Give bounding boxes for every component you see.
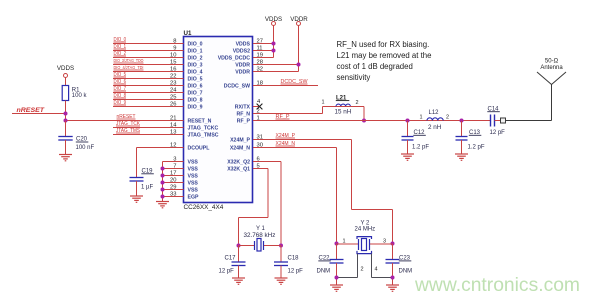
junction Y1 left	[237, 244, 241, 248]
inductor L12	[427, 118, 443, 121]
svg-text:1 µF: 1 µF	[141, 185, 153, 191]
svg-text:L21 may be removed at the: L21 may be removed at the	[337, 51, 432, 60]
wire net X32K_Q2 pin 6	[253, 161, 281, 163]
svg-text:DIO_9: DIO_9	[188, 105, 203, 111]
wire pin 28 VDDR	[253, 64, 299, 66]
svg-text:X32K_Q1: X32K_Q1	[227, 167, 250, 173]
svg-text:13: 13	[170, 130, 176, 136]
svg-text:DIO_3: DIO_3	[188, 63, 203, 69]
svg-text:RF_N used for RX biasing.: RF_N used for RX biasing.	[337, 40, 430, 49]
ground C13	[455, 154, 468, 160]
wire net RF_N pin 2	[253, 113, 323, 115]
wire VDDS rail	[273, 26, 275, 58]
svg-text:15: 15	[170, 60, 176, 66]
wire node to C20	[65, 121, 67, 137]
junction RF/C13	[460, 119, 464, 123]
svg-text:DIO_6: DIO_6	[188, 84, 203, 90]
svg-text:29: 29	[170, 185, 176, 191]
svg-text:DIO_4: DIO_4	[188, 70, 203, 76]
wire C12 stem	[407, 121, 409, 137]
wire VSS pin 7 stub	[163, 168, 184, 170]
svg-text:DNM: DNM	[399, 269, 413, 275]
wire net RF_P main line	[253, 120, 491, 122]
ground C17	[232, 278, 245, 284]
svg-text:100 k: 100 k	[72, 93, 88, 99]
svg-text:33: 33	[170, 192, 176, 198]
wire pin 12 DCOUPL to C19	[137, 147, 184, 149]
capacitor C13	[456, 137, 468, 141]
svg-text:50-Ω: 50-Ω	[545, 59, 559, 65]
svg-text:VDDS: VDDS	[57, 65, 74, 72]
svg-text:VSS: VSS	[188, 167, 199, 173]
wire VSS pin 33 stub	[163, 196, 184, 198]
wire net DIO_5 to pin 22	[113, 78, 184, 80]
wire net X24M_P pin 31	[253, 139, 352, 141]
ground C20	[59, 155, 72, 161]
wire net X32K_Q1 pin 5	[253, 168, 268, 170]
junction VDDR pin 28	[297, 63, 301, 67]
svg-text:2: 2	[446, 114, 449, 120]
svg-text:23: 23	[170, 81, 176, 87]
svg-text:17: 17	[170, 171, 176, 177]
wire Y2 pin 4	[371, 254, 373, 278]
capacitor C12	[402, 137, 414, 141]
svg-text:14: 14	[170, 123, 177, 129]
svg-text:CC26XX_4X4: CC26XX_4X4	[184, 204, 224, 211]
svg-text:24: 24	[170, 88, 177, 94]
svg-text:DCDC_SW: DCDC_SW	[224, 84, 250, 90]
wire Y1 left node	[239, 245, 255, 247]
junction Y2 left	[335, 242, 339, 246]
svg-text:RF_N: RF_N	[236, 112, 250, 118]
svg-text:VDDR: VDDR	[235, 63, 250, 69]
junction VSS bus	[161, 174, 165, 178]
capacitor C17	[232, 262, 246, 266]
wire pin 27 VDDS	[253, 43, 274, 45]
svg-text:VDDR: VDDR	[235, 70, 250, 76]
antenna 50-ohm	[537, 72, 566, 121]
svg-text:cost of 1 dB degraded: cost of 1 dB degraded	[337, 62, 413, 71]
capacitor C18	[274, 262, 288, 266]
svg-text:4: 4	[375, 267, 378, 273]
svg-text:1.2 pF: 1.2 pF	[412, 145, 429, 151]
svg-text:X24M_N: X24M_N	[230, 146, 250, 152]
ground C19	[130, 196, 143, 202]
wire C17 stem	[238, 246, 240, 263]
wire X32K_Q1 jog	[267, 169, 269, 218]
svg-text:RX/TX: RX/TX	[235, 105, 251, 111]
capacitor C23	[386, 260, 400, 264]
svg-text:DIO_2: DIO_2	[188, 56, 203, 62]
junction L21/RF_P	[362, 119, 366, 123]
svg-text:1.2 pF: 1.2 pF	[468, 145, 485, 151]
svg-text:DIO_8: DIO_8	[188, 98, 203, 104]
wire C13 stem	[461, 121, 463, 137]
svg-text:C18: C18	[288, 255, 300, 261]
junction VDDS pin 27	[272, 42, 276, 46]
wire C18 stem	[280, 246, 282, 263]
junction VSS bus	[161, 181, 165, 185]
wire net DIO_9 to pin 26	[113, 106, 184, 108]
svg-text:Y 1: Y 1	[256, 226, 266, 232]
wire VSS pin 29 stub	[163, 189, 184, 191]
svg-text:3: 3	[383, 238, 386, 244]
wire net nRESET to pin 21	[66, 120, 184, 122]
ground C18	[275, 278, 288, 284]
svg-text:VSS: VSS	[188, 188, 199, 194]
wire net DIO_2 to pin 10	[113, 57, 184, 59]
wire net DIO_6 to pin 23	[113, 85, 184, 87]
svg-text:2: 2	[356, 100, 359, 106]
ground VSS bus	[156, 202, 169, 208]
svg-text:8: 8	[173, 39, 176, 45]
svg-text:X24M_P: X24M_P	[230, 138, 250, 144]
svg-text:sensitivity: sensitivity	[337, 73, 371, 82]
wire VSS pin 20 stub	[163, 182, 184, 184]
capacitor C22	[330, 260, 344, 264]
svg-text:JTAG_TMSC: JTAG_TMSC	[188, 133, 219, 139]
svg-text:L12: L12	[429, 110, 440, 116]
svg-text:2: 2	[361, 267, 364, 273]
capacitor C20	[58, 137, 72, 141]
wire X32K_Q2 vertical	[280, 162, 282, 246]
no-connect X pin 4	[257, 104, 263, 110]
wire net DIO_3/JTAG_TDO to pin 15	[113, 64, 184, 66]
svg-text:www.cntronics.com: www.cntronics.com	[414, 274, 580, 296]
wire C18 ground	[280, 266, 282, 279]
svg-text:12: 12	[170, 143, 176, 149]
port terminal	[501, 118, 506, 123]
svg-text:12 pF: 12 pF	[288, 268, 304, 274]
wire net JTAG_TCK to pin 14	[113, 127, 184, 129]
svg-text:22: 22	[170, 74, 176, 80]
ground C22	[330, 285, 343, 291]
wire net DIO_8 to pin 25	[113, 99, 184, 101]
svg-text:VSS: VSS	[188, 160, 199, 166]
wire VSS pin 3 stub	[163, 161, 184, 163]
ground C23	[386, 285, 399, 291]
wire net X24M_N pin 30	[253, 147, 337, 149]
wire X24M_P vertical jog	[351, 140, 353, 210]
wire Y2 left node	[337, 243, 359, 245]
svg-text:U1: U1	[184, 30, 192, 37]
wire VDDR rail	[298, 26, 300, 72]
wire L21 drop to RF_P	[363, 107, 365, 121]
capacitor C19	[130, 178, 144, 182]
svg-text:Antenna: Antenna	[540, 65, 563, 71]
crystal Y2	[357, 237, 372, 254]
svg-text:EGP: EGP	[188, 195, 199, 201]
wire C20 to ground	[65, 140, 67, 155]
wire C12 to ground	[407, 140, 409, 154]
capacitor C14 series	[491, 115, 495, 127]
wire R1 to node	[65, 101, 67, 121]
svg-text:12 pF: 12 pF	[219, 268, 235, 274]
svg-text:25: 25	[170, 95, 176, 101]
wire C23 stem	[392, 244, 394, 260]
svg-text:VSS: VSS	[188, 181, 199, 187]
svg-text:VDDS: VDDS	[236, 42, 251, 48]
wire C13 to ground	[461, 140, 463, 154]
svg-text:DIO_5: DIO_5	[188, 77, 203, 83]
svg-text:C17: C17	[225, 255, 237, 261]
svg-text:DIO_0: DIO_0	[188, 42, 203, 48]
svg-text:12 pF: 12 pF	[490, 130, 506, 136]
junction nRESET/R1	[64, 112, 68, 116]
svg-text:15 nH: 15 nH	[335, 109, 352, 116]
svg-text:DNM: DNM	[317, 269, 331, 275]
svg-text:1: 1	[342, 238, 345, 244]
junction RF_P/C12	[406, 119, 410, 123]
ground C12	[401, 154, 414, 160]
svg-text:nRESET: nRESET	[17, 107, 46, 114]
wire pin 32 VDDR	[253, 71, 299, 73]
wire C22 stem	[336, 244, 338, 260]
wire pin 11 VDDS2	[253, 50, 274, 52]
wire net DIO_1 to pin 9	[113, 50, 184, 52]
wire C22 ground	[336, 263, 338, 285]
wire Y2 right node	[370, 243, 393, 245]
svg-text:DCOUPL: DCOUPL	[188, 146, 211, 152]
wire pin 4 RX/TX stub	[253, 106, 260, 108]
wire net JTAG_TMS to pin 13	[113, 134, 184, 136]
svg-text:Y 2: Y 2	[361, 220, 371, 226]
svg-text:21: 21	[170, 116, 176, 122]
wire port to antenna	[506, 120, 552, 122]
svg-text:1: 1	[321, 100, 324, 106]
svg-text:100 nF: 100 nF	[76, 145, 95, 151]
wire L21 left	[323, 106, 337, 108]
wire VDDS to R1	[65, 78, 67, 86]
wire VSS bus vertical	[162, 162, 164, 202]
inductor L21	[336, 104, 350, 106]
svg-text:VDDS2: VDDS2	[233, 49, 250, 55]
junction Y2 right	[391, 242, 395, 246]
wire net DIO_7 to pin 24	[113, 92, 184, 94]
wire net DCDC_SW pin 18	[253, 85, 318, 87]
svg-text:DIO_7: DIO_7	[188, 91, 203, 97]
svg-text:24 MHz: 24 MHz	[355, 227, 376, 233]
wire net DIO_0 to pin 8	[113, 43, 184, 45]
wire C19 to ground	[136, 181, 138, 196]
wire X24M_N vertical	[336, 148, 338, 244]
svg-text:JTAG_TCKC: JTAG_TCKC	[188, 126, 219, 132]
svg-text:10: 10	[170, 53, 176, 59]
wire C14 to port	[495, 120, 501, 122]
svg-text:7: 7	[173, 164, 176, 170]
junction VSS bus	[161, 195, 165, 199]
junction C22/pin2	[335, 276, 339, 280]
resistor R1	[62, 86, 68, 101]
wire pin 19 VDDS_DCDC	[253, 57, 274, 59]
wire VSS pin 17 stub	[163, 175, 184, 177]
wire L21 under-symbol	[336, 106, 350, 108]
wire net DIO_4/JTAG_TDI to pin 16	[113, 71, 184, 73]
junction C23/pin4	[391, 276, 395, 280]
wire Y1 right node	[264, 245, 282, 247]
wire C17 ground	[238, 266, 240, 279]
wire nRESET stub	[12, 113, 66, 115]
crystal Y1	[255, 239, 264, 252]
svg-text:RESET_N: RESET_N	[188, 119, 212, 125]
junction VDDS pin 11	[272, 49, 276, 53]
wire C23 ground	[392, 263, 394, 285]
junction VSS bus	[161, 167, 165, 171]
svg-text:26: 26	[170, 102, 176, 108]
wire RF_N riser to L21	[322, 107, 324, 114]
svg-text:9: 9	[173, 46, 176, 52]
wire L21 right	[350, 106, 364, 108]
svg-text:X32K_Q2: X32K_Q2	[227, 160, 250, 166]
svg-text:20: 20	[170, 178, 176, 184]
junction nRESET/C20	[64, 119, 68, 123]
svg-text:DIO_1: DIO_1	[188, 49, 203, 55]
junction Y1 right	[279, 244, 283, 248]
svg-text:VSS: VSS	[188, 174, 199, 180]
svg-text:16: 16	[170, 67, 176, 73]
svg-text:1: 1	[419, 114, 422, 120]
svg-text:VDDS_DCDC: VDDS_DCDC	[218, 56, 251, 62]
svg-text:2 nH: 2 nH	[428, 124, 442, 131]
svg-text:3: 3	[173, 157, 176, 163]
op IC U1 CC26XX_4X4 body	[184, 37, 253, 203]
svg-text:RF_P: RF_P	[237, 119, 251, 125]
wire Y2 pin 2	[357, 254, 359, 278]
junction VSS bus	[161, 188, 165, 192]
